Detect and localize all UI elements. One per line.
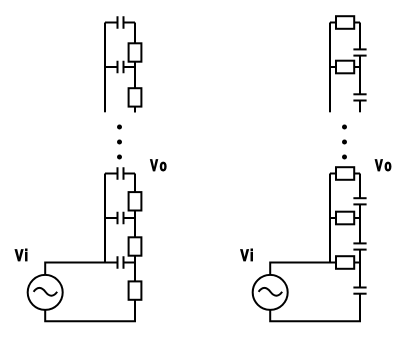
resistor R4 — [129, 237, 142, 255]
node Vo (right circuit) — [375, 159, 391, 171]
capacitor C9 — [353, 243, 366, 249]
capacitor C6 — [353, 49, 366, 55]
source V1 (sine) — [28, 275, 63, 310]
capacitor C7 — [353, 94, 366, 100]
wire — [134, 62, 136, 88]
wire bottom return — [45, 300, 135, 321]
capacitor C1 — [105, 16, 135, 29]
wire — [359, 56, 361, 95]
wire bottom return (right circuit) — [270, 294, 360, 322]
capacitor C5 — [118, 256, 136, 269]
wire left rail (lower section, right circuit) — [329, 174, 331, 263]
node Vi (right circuit) — [240, 249, 252, 261]
ellipsis dots (ladder continues) — [117, 125, 122, 160]
resistor R2 — [129, 88, 142, 106]
source V2 (sine) — [253, 275, 288, 310]
wire — [134, 211, 136, 238]
wire — [134, 23, 136, 44]
node Vo — [150, 159, 166, 171]
wire — [359, 101, 361, 113]
resistor R10 — [336, 256, 360, 269]
capacitor C2 — [105, 61, 135, 74]
resistor R1 — [129, 43, 142, 61]
wire left rail (upper section, right circuit) — [329, 23, 331, 113]
wire — [359, 204, 361, 243]
ellipsis dots (ladder continues, right circuit) — [342, 125, 347, 160]
wire from source to R10 — [270, 263, 336, 275]
node Vi — [15, 249, 27, 261]
wire — [359, 174, 361, 199]
resistor R8 — [330, 167, 360, 180]
wire left rail (lower section) — [104, 174, 106, 263]
resistor R7 — [330, 61, 360, 74]
resistor R6 — [330, 16, 360, 29]
capacitor C3 — [105, 167, 135, 180]
wire — [134, 107, 136, 113]
capacitor C8 — [353, 198, 366, 204]
resistor R5 — [129, 281, 142, 299]
wire — [359, 23, 361, 50]
wire — [359, 250, 361, 288]
resistor R9 — [330, 212, 360, 225]
capacitor C4 — [105, 212, 135, 225]
wire left rail (upper section) — [104, 23, 106, 113]
wire — [134, 256, 136, 282]
wire from source to C5 — [45, 263, 116, 275]
capacitor C10 — [353, 288, 366, 294]
resistor R3 — [129, 192, 142, 210]
wire — [134, 174, 136, 193]
